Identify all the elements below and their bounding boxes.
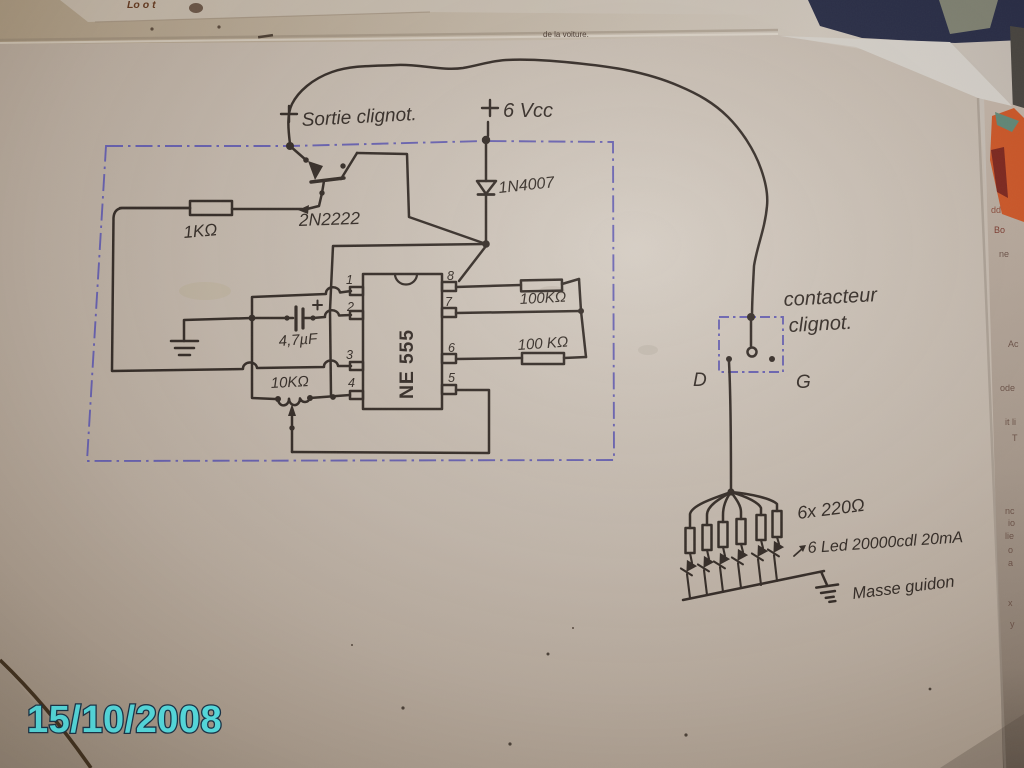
node: LED fan junction — [727, 488, 734, 495]
resistor 220 ohm a — [686, 528, 695, 553]
wire: cap to pin 2 — [313, 310, 351, 318]
wire: output curve from sortie clignot to contacteur — [288, 60, 767, 317]
node: ground cap junction — [249, 315, 256, 322]
pin 7 — [442, 295, 456, 317]
LED b — [698, 550, 715, 595]
wire: junction to pin 8 — [459, 246, 486, 281]
label +6Vcc — [482, 100, 553, 136]
pin 6 — [442, 341, 456, 363]
resistor 220 ohm b — [703, 525, 712, 550]
wire: junction to pin 1 — [252, 287, 351, 316]
label + Sortie clignot. — [281, 104, 417, 131]
wire: ground bus down to pot — [252, 320, 275, 399]
resistor R1 1K — [120, 201, 302, 215]
wire: fan to R220 c — [723, 492, 731, 522]
pin 1 — [346, 273, 363, 295]
wire: fan to R220 a — [690, 492, 731, 528]
LED c — [714, 547, 731, 592]
LED d — [732, 544, 749, 588]
resistor 220 ohm f — [773, 511, 782, 537]
wire: switch D down to LED bank — [729, 362, 731, 491]
wiper arrow of pot — [288, 404, 296, 452]
label 6 Led 20000cdl 20mA with arrow — [794, 529, 964, 557]
pin 2 — [346, 300, 363, 319]
wire: junction to reset bus pin4 — [330, 244, 486, 396]
potentiometer R4 10K — [275, 395, 350, 405]
switch S1 contacteur — [726, 313, 775, 362]
wire: fan to R220 f — [731, 492, 777, 511]
capacitor C1 4.7uF — [252, 301, 322, 331]
label contacteur clignot — [783, 284, 879, 337]
LED f — [768, 537, 785, 581]
wire: R2 right to pin7 bus — [579, 279, 586, 357]
pin 3 — [346, 348, 363, 370]
node +6Vcc — [482, 136, 490, 144]
resistor R2 100K — [456, 279, 579, 291]
resistor 220 ohm e — [757, 515, 766, 540]
IC U1 NE555 — [363, 274, 442, 409]
wire: feedback pin3 to R1 left side — [112, 208, 351, 371]
pin 4 — [348, 376, 363, 399]
resistor R3 100K — [522, 353, 586, 364]
ground left — [171, 318, 252, 355]
diode D1 1N4007 — [477, 144, 496, 242]
pin 5 — [442, 371, 456, 394]
wire: fan to R220 d — [731, 492, 741, 519]
wire: pin 7 — [456, 311, 581, 313]
LED a — [681, 553, 698, 598]
transistor Q1 2N2222 — [290, 146, 357, 214]
ground masse guidon — [814, 570, 840, 604]
resistor 220 ohm c — [719, 522, 728, 547]
right page printed text fragments (decorative) — [991, 205, 1019, 629]
LED e — [752, 540, 769, 585]
wire: fan to R220 e — [731, 492, 761, 515]
wire: fan to R220 b — [707, 492, 731, 525]
node: Vcc junction after diode — [482, 240, 490, 248]
wire: pin 6 — [456, 358, 522, 359]
wire: collector bus to Vcc junction — [357, 153, 486, 244]
resistor 220 ohm d — [737, 519, 746, 544]
wire: LED common rail — [683, 571, 824, 600]
wire: wiper to pin 5 — [292, 390, 489, 453]
flasher module boundary blue frame — [87, 141, 614, 461]
node: sortie clignot output — [286, 142, 294, 150]
contacteur enclosure blue dashed box — [719, 317, 783, 372]
pin 8 — [442, 269, 456, 291]
